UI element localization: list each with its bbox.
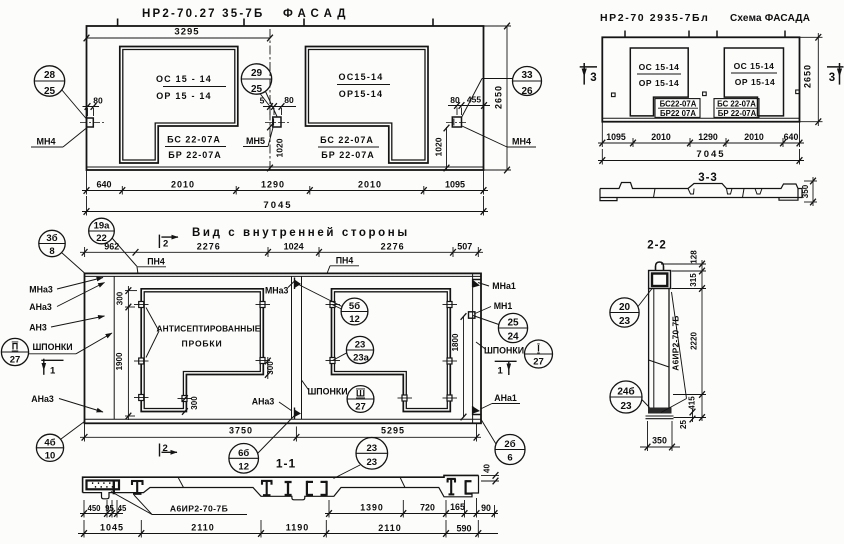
svg-text:АНа3: АНа3 bbox=[31, 394, 54, 404]
svg-text:ОР 15-14: ОР 15-14 bbox=[639, 78, 679, 88]
dim 1900 left bbox=[127, 311, 129, 420]
dim 300 top-left bbox=[125, 290, 137, 292]
callout 25/24 bbox=[498, 313, 527, 342]
svg-text:МН1: МН1 bbox=[494, 301, 513, 311]
svg-text:33: 33 bbox=[521, 70, 533, 81]
svg-text:10: 10 bbox=[45, 450, 56, 461]
svg-text:20: 20 bbox=[619, 302, 631, 313]
window opening right (L-shape) outer bbox=[306, 47, 429, 164]
section 3-3 profile bbox=[600, 183, 802, 201]
svg-text:АНа3: АНа3 bbox=[29, 302, 52, 312]
svg-text:А6ИР2-70-7Б: А6ИР2-70-7Б bbox=[671, 315, 681, 370]
svg-text:590: 590 bbox=[456, 524, 471, 534]
svg-text:АНа3: АНа3 bbox=[252, 397, 275, 407]
svg-text:27: 27 bbox=[533, 357, 544, 368]
svg-text:315: 315 bbox=[689, 273, 698, 287]
svg-text:2650: 2650 bbox=[803, 64, 813, 88]
dim 300 left opening leg bbox=[182, 395, 188, 402]
svg-text:25: 25 bbox=[679, 420, 688, 429]
svg-text:1-1: 1-1 bbox=[276, 457, 296, 471]
svg-text:23: 23 bbox=[619, 316, 631, 327]
svg-text:2010: 2010 bbox=[651, 132, 671, 142]
svg-text:25: 25 bbox=[507, 318, 519, 329]
svg-text:720: 720 bbox=[420, 503, 435, 513]
scheme dim row 1 bbox=[601, 122, 603, 147]
svg-text:95: 95 bbox=[105, 504, 114, 513]
svg-text:2650: 2650 bbox=[494, 85, 504, 109]
svg-text:23: 23 bbox=[355, 340, 366, 351]
opening left inner-view inner frame bbox=[144, 292, 260, 409]
section mark 2 bottom bbox=[159, 444, 161, 457]
bar bracket bbox=[285, 481, 292, 495]
svg-text:27: 27 bbox=[355, 402, 366, 413]
lifting ticks scheme bbox=[624, 31, 626, 38]
svg-text:300: 300 bbox=[190, 396, 199, 410]
svg-text:300: 300 bbox=[116, 291, 125, 305]
leader from 23/23 circle bbox=[334, 465, 361, 479]
svg-text:40: 40 bbox=[483, 464, 492, 473]
facade bottom dim row 1 bbox=[86, 170, 88, 195]
svg-text:ОР15-14: ОР15-14 bbox=[339, 89, 383, 99]
svg-text:1290: 1290 bbox=[261, 180, 285, 190]
dim 350 bottom bbox=[647, 421, 649, 451]
svg-text:НР2-70.27 35-7Б: НР2-70.27 35-7Б bbox=[142, 8, 264, 20]
svg-text:АН3: АН3 bbox=[29, 323, 47, 333]
scheme dim 7045 bbox=[601, 149, 603, 165]
svg-text:2110: 2110 bbox=[191, 523, 215, 533]
svg-text:23: 23 bbox=[367, 457, 378, 468]
opening left inner-view outer bbox=[141, 289, 263, 412]
right edge top anchor MNa1 bbox=[473, 280, 481, 288]
svg-text:1020: 1020 bbox=[434, 137, 444, 156]
dim 3295 bbox=[87, 37, 271, 39]
svg-text:2: 2 bbox=[163, 443, 168, 454]
svg-text:45: 45 bbox=[118, 504, 127, 513]
callout 6b/12 bbox=[229, 444, 259, 474]
svg-text:БР 22-07А: БР 22-07А bbox=[718, 109, 757, 118]
dim 80 left bbox=[87, 108, 89, 116]
svg-text:7045: 7045 bbox=[696, 149, 725, 160]
svg-text:МН5: МН5 bbox=[246, 136, 265, 146]
callout 23/23a bbox=[346, 336, 373, 363]
svg-text:24: 24 bbox=[507, 332, 519, 343]
svg-text:Ш: Ш bbox=[356, 389, 365, 399]
svg-text:300: 300 bbox=[266, 361, 275, 375]
svg-text:1390: 1390 bbox=[360, 503, 384, 513]
svg-text:БС 22-07А: БС 22-07А bbox=[717, 100, 756, 109]
svg-text:МН4: МН4 bbox=[512, 137, 531, 147]
svg-text:АНа1: АНа1 bbox=[494, 393, 517, 403]
svg-text:1: 1 bbox=[50, 366, 56, 377]
channel bracket right end bbox=[466, 480, 472, 494]
right edge anchor MN1 bbox=[469, 312, 475, 318]
svg-text:БР 22-07А: БР 22-07А bbox=[321, 150, 375, 160]
svg-text:МНа3: МНа3 bbox=[265, 286, 289, 296]
scheme opening right bbox=[724, 48, 783, 116]
svg-text:12: 12 bbox=[349, 314, 360, 325]
svg-text:128: 128 bbox=[690, 250, 699, 264]
svg-text:МНа1: МНа1 bbox=[492, 281, 516, 291]
top dim row inner view bbox=[84, 247, 86, 257]
svg-text:12: 12 bbox=[238, 461, 249, 472]
svg-text:80: 80 bbox=[284, 95, 294, 105]
bottom block bbox=[648, 408, 672, 414]
dim 1020 right bbox=[446, 127, 448, 170]
left rib thick bar bbox=[113, 481, 115, 495]
callout 3b/8 bbox=[39, 230, 65, 256]
svg-text:БР22 07А: БР22 07А bbox=[660, 109, 696, 118]
anchor MN4 right bbox=[452, 117, 461, 127]
svg-text:ШПОНКИ: ШПОНКИ bbox=[32, 342, 72, 352]
label A6IR2-70-7B vertical bbox=[672, 292, 687, 399]
dim 25 bbox=[692, 409, 694, 422]
window opening left inner frame bbox=[123, 50, 235, 161]
svg-text:23: 23 bbox=[367, 443, 378, 454]
body bbox=[648, 289, 650, 408]
svg-text:90: 90 bbox=[481, 503, 491, 513]
opening right inner-view outer bbox=[332, 289, 451, 412]
svg-text:БР 22-07А: БР 22-07А bbox=[168, 150, 222, 160]
callout 2b/6 bbox=[495, 435, 525, 465]
dim 1020 center bbox=[267, 124, 273, 131]
svg-text:640: 640 bbox=[96, 180, 111, 190]
svg-text:2б: 2б bbox=[504, 439, 515, 450]
svg-text:2010: 2010 bbox=[358, 180, 382, 190]
svg-text:5б: 5б bbox=[349, 301, 360, 312]
panel outline facade bbox=[87, 26, 484, 170]
diagonal break bbox=[649, 360, 669, 367]
right edge bottom anchor ANa1 bbox=[473, 406, 481, 415]
svg-text:1900: 1900 bbox=[115, 352, 124, 370]
panel outline scheme bbox=[602, 37, 799, 121]
dim 1800 right bbox=[463, 316, 465, 418]
svg-text:1290: 1290 bbox=[698, 132, 718, 142]
section mark 1 right bbox=[495, 360, 517, 362]
head block bbox=[649, 271, 671, 289]
row2 1045/2110/1190/2110/590 bbox=[83, 520, 85, 538]
svg-text:ОР 15-14: ОР 15-14 bbox=[735, 77, 775, 87]
svg-text:ФАСАД: ФАСАД bbox=[283, 8, 351, 20]
svg-text:МН4: МН4 bbox=[36, 137, 55, 147]
svg-text:23а: 23а bbox=[353, 353, 370, 364]
anchor dots scheme bbox=[612, 93, 616, 97]
svg-text:3: 3 bbox=[829, 72, 835, 84]
svg-text:3б: 3б bbox=[46, 233, 57, 244]
svg-text:1020: 1020 bbox=[275, 138, 285, 157]
bottom dim row 3750/5295 bbox=[84, 423, 86, 441]
panel outline inner view bbox=[85, 273, 482, 423]
svg-text:2: 2 bbox=[163, 239, 168, 250]
window opening right inner frame bbox=[309, 50, 426, 161]
lifting loop bbox=[656, 262, 664, 271]
svg-text:БС 22-07А: БС 22-07А bbox=[320, 135, 374, 145]
svg-text:ОС 15-14: ОС 15-14 bbox=[734, 61, 775, 71]
BC box left bbox=[655, 99, 700, 118]
svg-text:962: 962 bbox=[104, 242, 119, 252]
svg-text:80: 80 bbox=[450, 95, 460, 105]
centerline bbox=[269, 29, 271, 172]
svg-text:БС 22-07А: БС 22-07А bbox=[167, 135, 221, 145]
scheme opening left bbox=[630, 48, 688, 116]
svg-text:ПРОБКИ: ПРОБКИ bbox=[182, 339, 223, 349]
svg-text:2010: 2010 bbox=[744, 132, 764, 142]
svg-text:415: 415 bbox=[688, 396, 697, 410]
svg-text:Вид с внутренней стороны: Вид с внутренней стороны bbox=[192, 227, 410, 239]
left rib line bbox=[113, 276, 115, 419]
row1 left 450/95/45 bbox=[83, 500, 85, 518]
anchor ANa3 bottom center (pennant) bbox=[294, 408, 296, 420]
svg-text:2220: 2220 bbox=[690, 332, 699, 350]
callout 28/25 bbox=[34, 66, 64, 96]
svg-text:25: 25 bbox=[251, 84, 263, 95]
svg-text:25: 25 bbox=[44, 86, 56, 97]
section mark 3 left bbox=[580, 66, 597, 68]
facade bottom dim row 7045 bbox=[86, 196, 88, 216]
svg-text:24б: 24б bbox=[617, 386, 634, 398]
callout 33/26 bbox=[513, 67, 542, 96]
svg-text:26: 26 bbox=[521, 86, 533, 97]
callout 5b/12 bbox=[341, 298, 368, 325]
dim 40 right end bbox=[481, 474, 499, 476]
svg-text:ОС15-14: ОС15-14 bbox=[339, 72, 384, 82]
callout 19a/22 bbox=[89, 218, 115, 244]
svg-text:350: 350 bbox=[652, 436, 667, 446]
right dim chain bbox=[661, 263, 706, 265]
svg-text:ОС 15 - 14: ОС 15 - 14 bbox=[156, 74, 212, 84]
callout 29/25 bbox=[241, 64, 271, 94]
svg-text:2276: 2276 bbox=[381, 242, 405, 252]
callout II/27 + shponki left bbox=[1, 338, 28, 365]
svg-text:6: 6 bbox=[507, 453, 512, 464]
left end armature box bbox=[87, 481, 120, 490]
callout 4b/10 bbox=[36, 434, 63, 461]
svg-text:2010: 2010 bbox=[171, 180, 195, 190]
svg-text:2110: 2110 bbox=[378, 523, 402, 533]
svg-text:БС22-07А: БС22-07А bbox=[660, 100, 697, 109]
anchor MNa3 top center (pennant) bbox=[294, 278, 296, 290]
I-beam bracket 1 bbox=[131, 481, 144, 494]
svg-text:Схема ФАСАДА: Схема ФАСАДА bbox=[730, 13, 810, 24]
svg-text:3: 3 bbox=[590, 72, 596, 84]
svg-text:1024: 1024 bbox=[284, 242, 304, 252]
callout 20/23 bbox=[610, 298, 639, 327]
svg-text:29: 29 bbox=[251, 68, 263, 79]
svg-text:1: 1 bbox=[498, 366, 504, 377]
section mark 2 top bbox=[158, 235, 160, 248]
svg-text:7045: 7045 bbox=[263, 200, 292, 211]
window opening left (L-shape) outer bbox=[120, 47, 238, 164]
svg-text:А6ИР2-70-7Б: А6ИР2-70-7Б bbox=[170, 504, 228, 514]
dim 300 right of left opening bbox=[267, 357, 269, 379]
svg-text:1800: 1800 bbox=[451, 333, 460, 351]
svg-text:19а: 19а bbox=[94, 221, 111, 232]
I-beam bracket 3 bbox=[447, 479, 456, 495]
row1 right 1390/720/165/90 bbox=[328, 500, 330, 518]
opening right inner-view inner frame bbox=[335, 292, 448, 409]
svg-text:450: 450 bbox=[87, 504, 101, 513]
dim 350 of 3-3 bbox=[804, 180, 817, 182]
svg-text:350: 350 bbox=[801, 184, 810, 198]
svg-text:6б: 6б bbox=[238, 448, 249, 459]
svg-text:640: 640 bbox=[784, 132, 799, 142]
svg-text:165: 165 bbox=[450, 502, 465, 512]
svg-text:80: 80 bbox=[93, 96, 103, 106]
dim 2650 scheme bbox=[800, 36, 823, 38]
svg-text:ОС 15-14: ОС 15-14 bbox=[639, 62, 680, 72]
svg-text:ШПОНКИ: ШПОНКИ bbox=[307, 387, 347, 397]
svg-text:507: 507 bbox=[457, 242, 472, 252]
svg-text:5295: 5295 bbox=[381, 426, 405, 436]
dim 2650 right bbox=[484, 25, 512, 27]
svg-text:ПН4: ПН4 bbox=[147, 257, 165, 267]
svg-text:МНа3: МНа3 bbox=[29, 285, 53, 295]
dim 80 455 right bbox=[456, 108, 458, 116]
svg-text:АНТИСЕПТИРОВАННЫЕ: АНТИСЕПТИРОВАННЫЕ bbox=[156, 324, 260, 334]
channel bracket [ bbox=[307, 481, 313, 496]
lifting ticks on top edge bbox=[117, 19, 119, 27]
joint mark left bbox=[178, 477, 184, 487]
center joint bbox=[291, 276, 293, 419]
I-beam bracket 2 bbox=[261, 481, 273, 496]
svg-text:НР2-70 2935-7Бл: НР2-70 2935-7Бл bbox=[600, 12, 709, 24]
anchor MN5 center bbox=[273, 117, 281, 127]
svg-text:2276: 2276 bbox=[197, 242, 221, 252]
BC box right bbox=[714, 99, 759, 118]
svg-text:4б: 4б bbox=[44, 437, 55, 448]
section mark 1 left bbox=[41, 359, 63, 361]
channel bracket ] bbox=[321, 481, 327, 496]
svg-text:1190: 1190 bbox=[286, 523, 310, 533]
svg-text:2-2: 2-2 bbox=[647, 240, 667, 252]
dim 5 / 80 center bbox=[269, 108, 271, 115]
svg-text:ОР 15 - 14: ОР 15 - 14 bbox=[156, 91, 212, 101]
svg-text:3750: 3750 bbox=[229, 426, 253, 436]
svg-text:27: 27 bbox=[10, 355, 21, 366]
svg-text:23: 23 bbox=[620, 401, 632, 412]
joint mark right bbox=[400, 477, 405, 487]
svg-text:П: П bbox=[12, 342, 18, 352]
svg-text:8: 8 bbox=[49, 246, 54, 257]
anchor MN4 left bbox=[87, 118, 94, 127]
svg-text:28: 28 bbox=[44, 70, 56, 81]
svg-text:3-3: 3-3 bbox=[698, 172, 718, 184]
svg-text:1095: 1095 bbox=[445, 180, 465, 190]
section bottom profile bbox=[83, 475, 479, 499]
svg-text:1045: 1045 bbox=[100, 523, 124, 533]
callout 23/23 over section bbox=[356, 438, 388, 470]
svg-text:ШПОНКИ: ШПОНКИ bbox=[484, 346, 524, 356]
section mark 3 right bbox=[827, 66, 844, 68]
svg-text:3295: 3295 bbox=[174, 27, 199, 38]
panel bottom inner line bbox=[87, 166, 484, 168]
svg-text:ПН4: ПН4 bbox=[336, 256, 354, 266]
section top chord bbox=[83, 475, 479, 492]
callout 24b/23 bbox=[610, 381, 642, 413]
antiseptic plugs left opening bbox=[139, 302, 452, 402]
svg-text:1095: 1095 bbox=[606, 132, 626, 142]
svg-text:I: I bbox=[537, 344, 540, 354]
